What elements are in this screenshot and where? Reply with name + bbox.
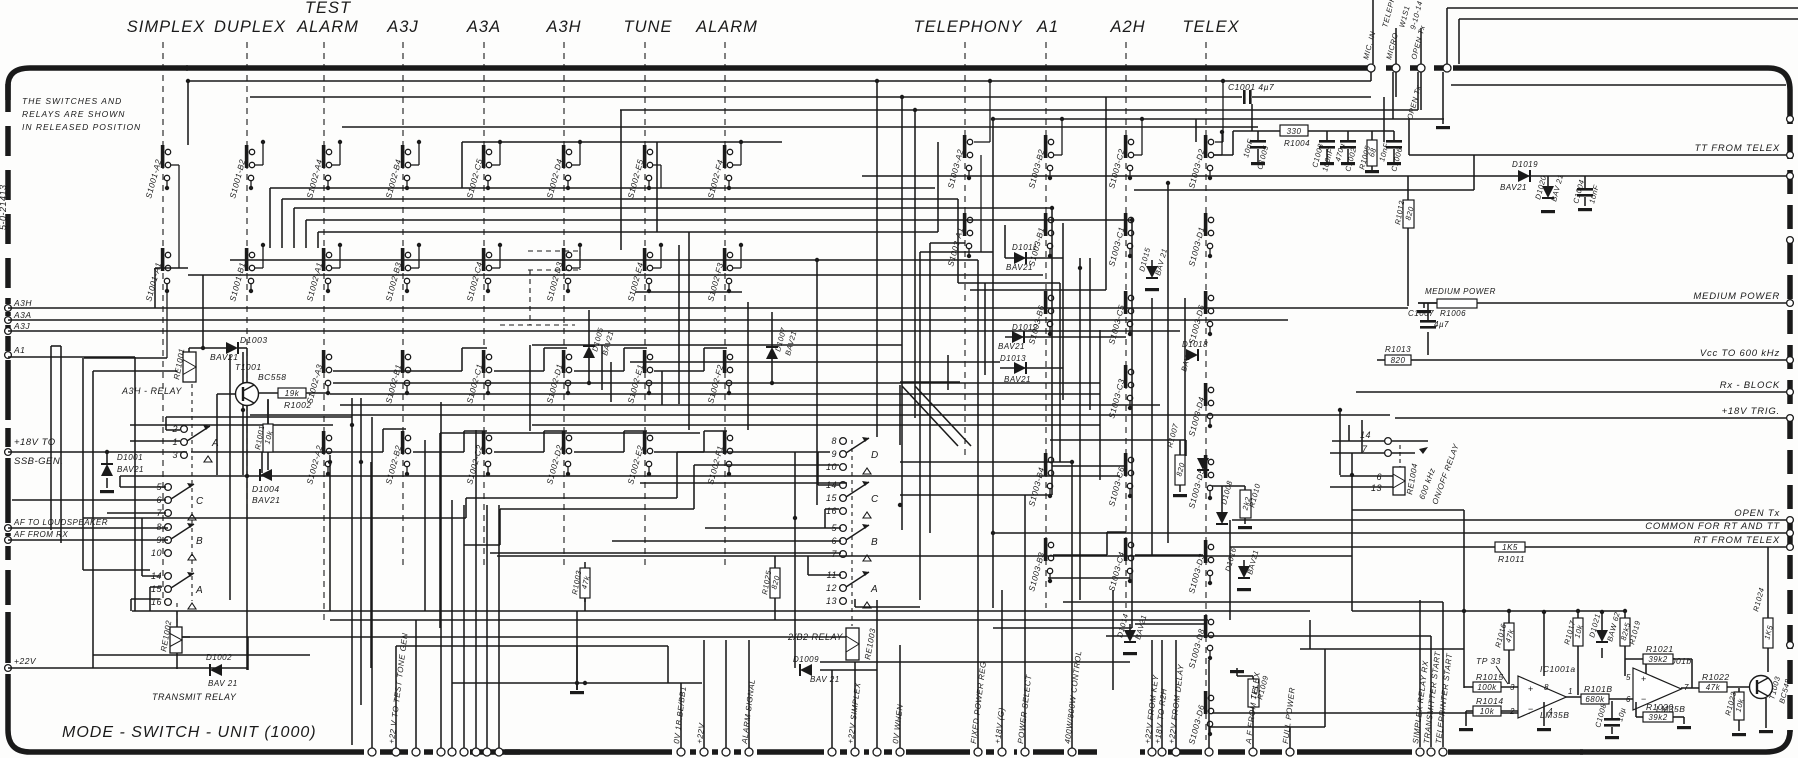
svg-text:R1022: R1022 [1702, 672, 1730, 682]
wire [250, 96, 1242, 98]
mode column dashed line A3A [483, 42, 485, 566]
wire [576, 683, 578, 690]
wire [166, 416, 352, 418]
wire [747, 302, 749, 430]
bottom terminal +22 V TO TEST TONE GEN [392, 748, 400, 756]
bottom terminal pin [873, 748, 881, 756]
wire [1131, 220, 1133, 628]
wire row4 jog vert [463, 431, 465, 452]
wire [130, 599, 132, 611]
switch S1003-B3 [1044, 538, 1048, 561]
wire row4 jog vert [382, 429, 384, 452]
terminal A1 [5, 352, 12, 359]
wire [166, 429, 180, 431]
diode D1019 [1518, 170, 1530, 182]
bottom terminal ALARM SIGNAL [745, 748, 753, 756]
wire row4 jog [654, 370, 704, 372]
wire [1232, 131, 1234, 155]
wire [270, 187, 935, 189]
wire [216, 394, 218, 475]
wire [83, 517, 466, 519]
wire [901, 97, 903, 530]
border frame bottom segment [1218, 749, 1245, 755]
switch S1003-C2 [1124, 135, 1128, 158]
switch S1002-E2 [643, 431, 647, 454]
wire row4 jog [704, 347, 727, 349]
mode column dashed line A2H [1125, 42, 1127, 608]
border frame bottom segment [424, 749, 433, 755]
wire [247, 637, 249, 670]
bottom terminal 0V 1B.BE/BB1 [677, 748, 685, 756]
wire [1005, 336, 1126, 338]
bottom terminal pin [828, 748, 836, 756]
wire [1352, 610, 1625, 612]
mode column dashed line A1 [1045, 42, 1047, 608]
svg-text:IN RELEASED POSITION: IN RELEASED POSITION [22, 122, 141, 132]
svg-text:−: − [1528, 704, 1534, 714]
wire [50, 346, 52, 530]
resistor R1004 [1280, 125, 1308, 136]
svg-text:D1003: D1003 [240, 335, 268, 345]
wire [120, 486, 166, 488]
wire [748, 640, 750, 748]
wire row4 jog vert [623, 348, 625, 371]
wire [8, 356, 135, 358]
wire [914, 110, 916, 418]
wire [703, 640, 705, 748]
wire [250, 414, 1390, 416]
resistor R1003 [580, 568, 590, 598]
resistor R1011 [1495, 542, 1525, 552]
wire [1309, 620, 1311, 649]
svg-text:D: D [871, 450, 879, 461]
switch S1003-D3 [1204, 540, 1208, 563]
wire [149, 587, 151, 611]
wire [1024, 495, 1026, 748]
bottom terminal FULL POWER [1286, 748, 1294, 756]
wire [318, 231, 938, 233]
bottom terminal +22V SIMPLEX [851, 748, 859, 756]
wire [1417, 72, 1419, 110]
border frame top right [1453, 68, 1790, 100]
border frame bottom segment [690, 749, 696, 755]
border frame bottom segment [986, 749, 994, 755]
wire [132, 610, 1310, 612]
switch S1003-D4 [1204, 383, 1208, 406]
switch S1002-A2 [322, 431, 326, 454]
diode D1016 [1238, 566, 1250, 578]
bottom terminal +22V [700, 748, 708, 756]
wire [1427, 303, 1429, 320]
svg-text:TT FROM TELEX: TT FROM TELEX [1695, 143, 1780, 154]
wire [529, 345, 531, 431]
bottom terminal pin [437, 748, 445, 756]
wire [330, 393, 1100, 395]
wire [330, 619, 1208, 621]
wire [360, 398, 362, 705]
svg-text:MEDIUM POWER: MEDIUM POWER [1425, 287, 1496, 296]
border frame left segment [5, 360, 11, 420]
switch S1001-B1 [245, 248, 249, 271]
mode column dashed line TAL [323, 42, 325, 620]
svg-text:BAV 21: BAV 21 [208, 679, 238, 688]
bottom terminal TRANSMITTER START [1427, 748, 1435, 756]
ground R1006 [1423, 303, 1425, 308]
wire [1624, 611, 1626, 618]
mode column dashed line TEL [964, 42, 966, 460]
op-amp IC1001b [1633, 668, 1681, 710]
terminal AF FROM RX [5, 537, 12, 544]
svg-text:BAV21: BAV21 [998, 342, 1025, 351]
switch S1002-B3 [401, 248, 405, 271]
wire [242, 352, 244, 475]
wire [281, 199, 283, 248]
wire [261, 452, 263, 473]
wire [620, 109, 1418, 111]
border frame left segment [5, 674, 11, 700]
wire border drop 1 [1370, 72, 1372, 81]
svg-text:MODE - SWITCH - UNIT (1000): MODE - SWITCH - UNIT (1000) [62, 724, 317, 741]
transistor T1001 [217, 393, 235, 395]
wire [532, 424, 1100, 426]
wire diagonal 2 [915, 386, 971, 446]
wire [876, 81, 878, 437]
bottom terminal +22V FROM KEY [1148, 748, 1156, 756]
wire [831, 670, 833, 748]
wire row4 jog [704, 430, 727, 432]
wire [8, 330, 1180, 332]
svg-text:R1006: R1006 [1440, 309, 1466, 318]
wire [1339, 410, 1341, 475]
resistor R1025 [770, 568, 780, 598]
svg-text:2: 2 [1509, 707, 1515, 716]
wire [134, 357, 136, 611]
wire [465, 498, 467, 518]
wire R1022 out [1727, 686, 1750, 688]
ground R1003 [570, 691, 584, 694]
relay RE1001 dashed actuator [191, 384, 193, 601]
wire [1059, 283, 1061, 462]
switch S1003-D6 [1204, 291, 1208, 314]
wire [816, 260, 818, 505]
wire [1383, 97, 1385, 142]
wire [1577, 646, 1579, 695]
mode column dashed line SIM [162, 42, 164, 600]
wire [1463, 510, 1465, 688]
wire row4 jog [464, 430, 487, 432]
resistor R1009 [1248, 679, 1259, 707]
wire [630, 361, 1000, 363]
wire [370, 462, 372, 668]
svg-text:R1013: R1013 [1385, 345, 1411, 354]
transistor T1003 [1750, 676, 1773, 699]
mode column dashed line A3J [402, 42, 404, 566]
wire [1151, 298, 1153, 556]
wire [395, 646, 397, 748]
svg-text:12: 12 [826, 583, 837, 593]
wire row4 jog vert [461, 348, 463, 371]
svg-text:BAV21: BAV21 [117, 465, 144, 474]
border frame bottom segment [864, 749, 869, 755]
svg-text:+: + [1641, 674, 1647, 684]
wire [1289, 727, 1291, 748]
svg-text:SIMPLEX: SIMPLEX [127, 18, 206, 36]
wire [900, 461, 1072, 463]
wire [424, 440, 426, 611]
wire [1508, 611, 1510, 623]
wire [957, 199, 959, 283]
svg-text:R1002: R1002 [284, 400, 312, 410]
wire [1212, 712, 1530, 714]
terminal COMMON FOR RT AND TT [1787, 530, 1794, 537]
svg-text:Rx - BLOCK: Rx - BLOCK [1720, 380, 1780, 391]
svg-text:100k: 100k [1477, 683, 1497, 692]
resistor R1017 [1573, 618, 1583, 646]
svg-text:A3A: A3A [13, 310, 32, 320]
switch S1002-F3 [723, 248, 727, 271]
wire [876, 600, 878, 748]
border frame left segment [5, 298, 11, 304]
wire [154, 268, 156, 308]
svg-text:TUNE: TUNE [624, 18, 673, 36]
wire [1050, 439, 1186, 441]
svg-text:8: 8 [1544, 683, 1549, 692]
svg-text:A3J: A3J [386, 18, 418, 36]
wire top right vert 1 [1372, 0, 1374, 64]
wire [1508, 650, 1510, 684]
bottom terminal pin [495, 748, 503, 756]
svg-text:R1014: R1014 [1476, 696, 1504, 706]
wire [640, 482, 847, 484]
wire [499, 509, 501, 545]
wire [1418, 302, 1786, 304]
switch S1003-A2 [963, 135, 967, 158]
switch S1001-A2 [161, 145, 165, 168]
svg-text:+22V: +22V [14, 656, 37, 666]
switch S1002-D3 [562, 248, 566, 271]
wire [1062, 223, 1064, 400]
svg-text:7: 7 [831, 549, 837, 559]
diode D1020 [1542, 186, 1554, 198]
svg-text:10: 10 [826, 462, 837, 472]
wire [462, 141, 782, 143]
wire [1451, 84, 1786, 86]
border circle MIC.IN [1367, 64, 1375, 72]
border frame bottom segment [380, 749, 408, 755]
capacitor C1003 [1326, 131, 1328, 140]
wire [155, 267, 188, 269]
ground R1014 [1465, 711, 1467, 726]
wire [229, 355, 231, 600]
relay RE1004 actuator dashed [1399, 445, 1401, 467]
bottom terminal SIMPLEX RELAY RX [1416, 748, 1424, 756]
wire [107, 512, 166, 514]
wire [1112, 590, 1114, 690]
wire [824, 509, 826, 528]
wire [774, 556, 776, 568]
border frame top-left corner [8, 68, 188, 100]
resistor R1010 [1240, 490, 1251, 518]
svg-text:47k: 47k [1706, 683, 1721, 692]
diode D1008 [1216, 512, 1228, 524]
relay RE1002 [170, 627, 182, 653]
wire [142, 575, 161, 577]
border frame left segment [5, 336, 11, 351]
wire [1107, 531, 1126, 533]
svg-text:C: C [196, 496, 204, 507]
wire bottom right vert 2 [1430, 636, 1432, 747]
bottom terminal pin [1205, 748, 1213, 756]
switch S1003-B6 [1044, 291, 1048, 314]
wire [667, 646, 669, 683]
svg-text:D1002: D1002 [206, 653, 232, 662]
relay RE1002 dashed actuator [176, 603, 178, 623]
wire [294, 207, 1052, 209]
switch S1002-A1 [322, 248, 326, 271]
wire [269, 188, 271, 248]
wire [267, 399, 269, 424]
diode D1002 [210, 664, 222, 676]
resistor R1005 [1367, 140, 1377, 166]
wire [452, 682, 702, 684]
svg-text:A3H: A3H [13, 298, 32, 308]
mode column dashed line ALM [724, 42, 726, 566]
diode D1004 [260, 469, 272, 481]
svg-text:1K5: 1K5 [1502, 543, 1518, 552]
svg-text:Vcc TO 600 kHz: Vcc TO 600 kHz [1700, 348, 1780, 359]
bottom terminal +18V (G) [998, 748, 1006, 756]
wire [439, 433, 441, 628]
diode D1007 [771, 312, 773, 347]
mode column dashed line TUN [644, 42, 646, 566]
wire [900, 381, 960, 383]
border frame left segment [5, 458, 11, 523]
switch S1003-C4 [1124, 538, 1128, 561]
border frame bottom segment [1297, 749, 1412, 755]
wire R1006 [1418, 302, 1437, 304]
diode D1005 [588, 310, 590, 346]
wire [12, 499, 166, 501]
wire [246, 406, 248, 670]
wire [230, 259, 978, 261]
svg-text:COMMON FOR RT AND TT: COMMON FOR RT AND TT [1645, 521, 1780, 532]
wire [937, 142, 939, 232]
svg-text:A3H: A3H [545, 18, 581, 36]
diode D1001 [101, 464, 113, 476]
svg-text:TRANSMIT RELAY: TRANSMIT RELAY [152, 692, 237, 702]
wire [1645, 658, 1647, 676]
wire [1348, 425, 1350, 441]
border frame left segment [5, 546, 11, 560]
border frame bottom segment [1078, 749, 1097, 755]
wire [333, 382, 1100, 384]
switch S1002-B4 [401, 145, 405, 168]
wire [705, 527, 841, 529]
switch S1002-F2 [723, 350, 727, 373]
svg-text:R1021: R1021 [1646, 644, 1674, 654]
wire [601, 345, 603, 390]
switch S1002-D2 [562, 431, 566, 454]
wire [820, 661, 1130, 663]
svg-text:RELAYS ARE SHOWN: RELAYS ARE SHOWN [22, 109, 125, 119]
svg-text:1: 1 [1568, 687, 1573, 696]
wire top right horiz 1 [1447, 7, 1798, 9]
switch S1002-E1 [643, 350, 647, 373]
wire [165, 417, 167, 430]
diode D1011 [1014, 252, 1026, 264]
svg-text:BAV21: BAV21 [252, 495, 281, 505]
wire [818, 484, 839, 486]
diode D1009 [800, 664, 812, 676]
svg-text:D1004: D1004 [252, 484, 280, 494]
capacitor C1006 [1393, 131, 1395, 140]
wire R1002 [258, 392, 278, 394]
wire [141, 518, 143, 576]
terminal RT FROM TELEX [1787, 544, 1794, 551]
wire row4 jog vert [703, 431, 705, 452]
wire [807, 556, 809, 575]
diode D1013 [1014, 362, 1026, 374]
wire [305, 220, 307, 248]
wire [1001, 590, 1003, 748]
wire [993, 627, 1132, 629]
bottom terminal +22V FROM DELAY [1172, 748, 1180, 756]
wire [84, 357, 167, 359]
switch S1003-D8 [1204, 615, 1208, 638]
wire [1473, 155, 1475, 190]
wire [1195, 119, 1197, 142]
wire border drop 4 [1442, 72, 1444, 124]
wire [8, 307, 1408, 309]
svg-text:680k: 680k [1585, 695, 1605, 704]
wire [396, 645, 668, 647]
ground R1023 [1732, 733, 1746, 736]
relay RE1003 [846, 628, 859, 660]
wire R1021 [1625, 658, 1643, 660]
svg-text:BAV 21: BAV 21 [810, 675, 840, 684]
terminal +22V [5, 665, 12, 672]
wire row4 jog vert [543, 348, 545, 371]
resistor R1016 [1504, 623, 1514, 650]
svg-text:C1007: C1007 [1408, 309, 1434, 318]
svg-text:IC1001a: IC1001a [1540, 664, 1576, 674]
wire [1601, 648, 1603, 658]
diode D1017 bav21 small [1197, 458, 1209, 470]
border frame top dashed segment [1362, 65, 1455, 71]
ground IC1001a [1543, 702, 1545, 726]
svg-text:C1001 4µ7: C1001 4µ7 [1228, 82, 1274, 92]
border frame left segment [5, 612, 11, 663]
svg-text:A: A [195, 585, 203, 596]
wire [1052, 465, 1126, 467]
wire border drop 3 [1420, 72, 1422, 110]
wire [333, 370, 462, 372]
wire [676, 452, 678, 498]
wire [1079, 258, 1081, 600]
border circle MICRO [1392, 64, 1400, 72]
wire [340, 404, 1160, 406]
wire IC1001a out [1566, 696, 1584, 698]
wire [1577, 611, 1579, 618]
wire [862, 175, 1786, 177]
bottom terminal 400W/800W CONTROL [1068, 748, 1076, 756]
wire [1352, 509, 1464, 511]
resistor R1023 [1734, 692, 1744, 720]
bottom terminal A F FROM TELEX [1249, 748, 1257, 756]
wire [351, 398, 353, 745]
resistor R1019 [1620, 618, 1630, 646]
switch S1001-A1 [161, 248, 165, 271]
